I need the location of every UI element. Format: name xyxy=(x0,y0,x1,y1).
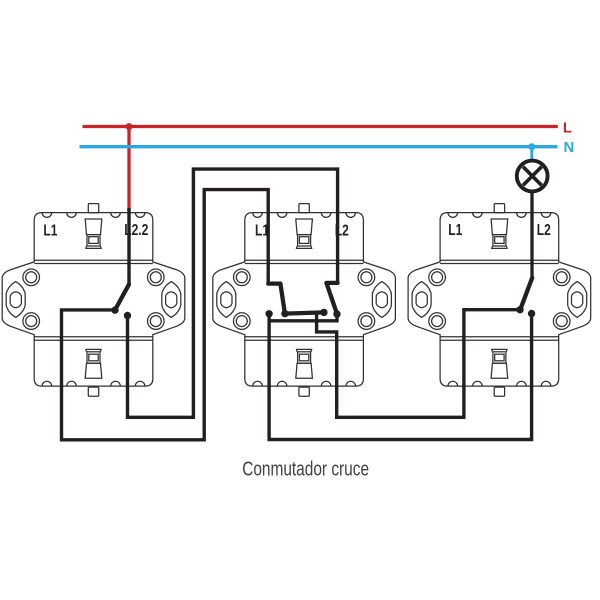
svg-text:L1: L1 xyxy=(448,221,462,239)
svg-text:L2: L2 xyxy=(537,221,551,239)
svg-text:Conmutador cruce: Conmutador cruce xyxy=(242,458,369,481)
svg-text:L1: L1 xyxy=(43,221,57,239)
svg-text:N: N xyxy=(564,140,575,156)
svg-text:L: L xyxy=(563,121,572,137)
